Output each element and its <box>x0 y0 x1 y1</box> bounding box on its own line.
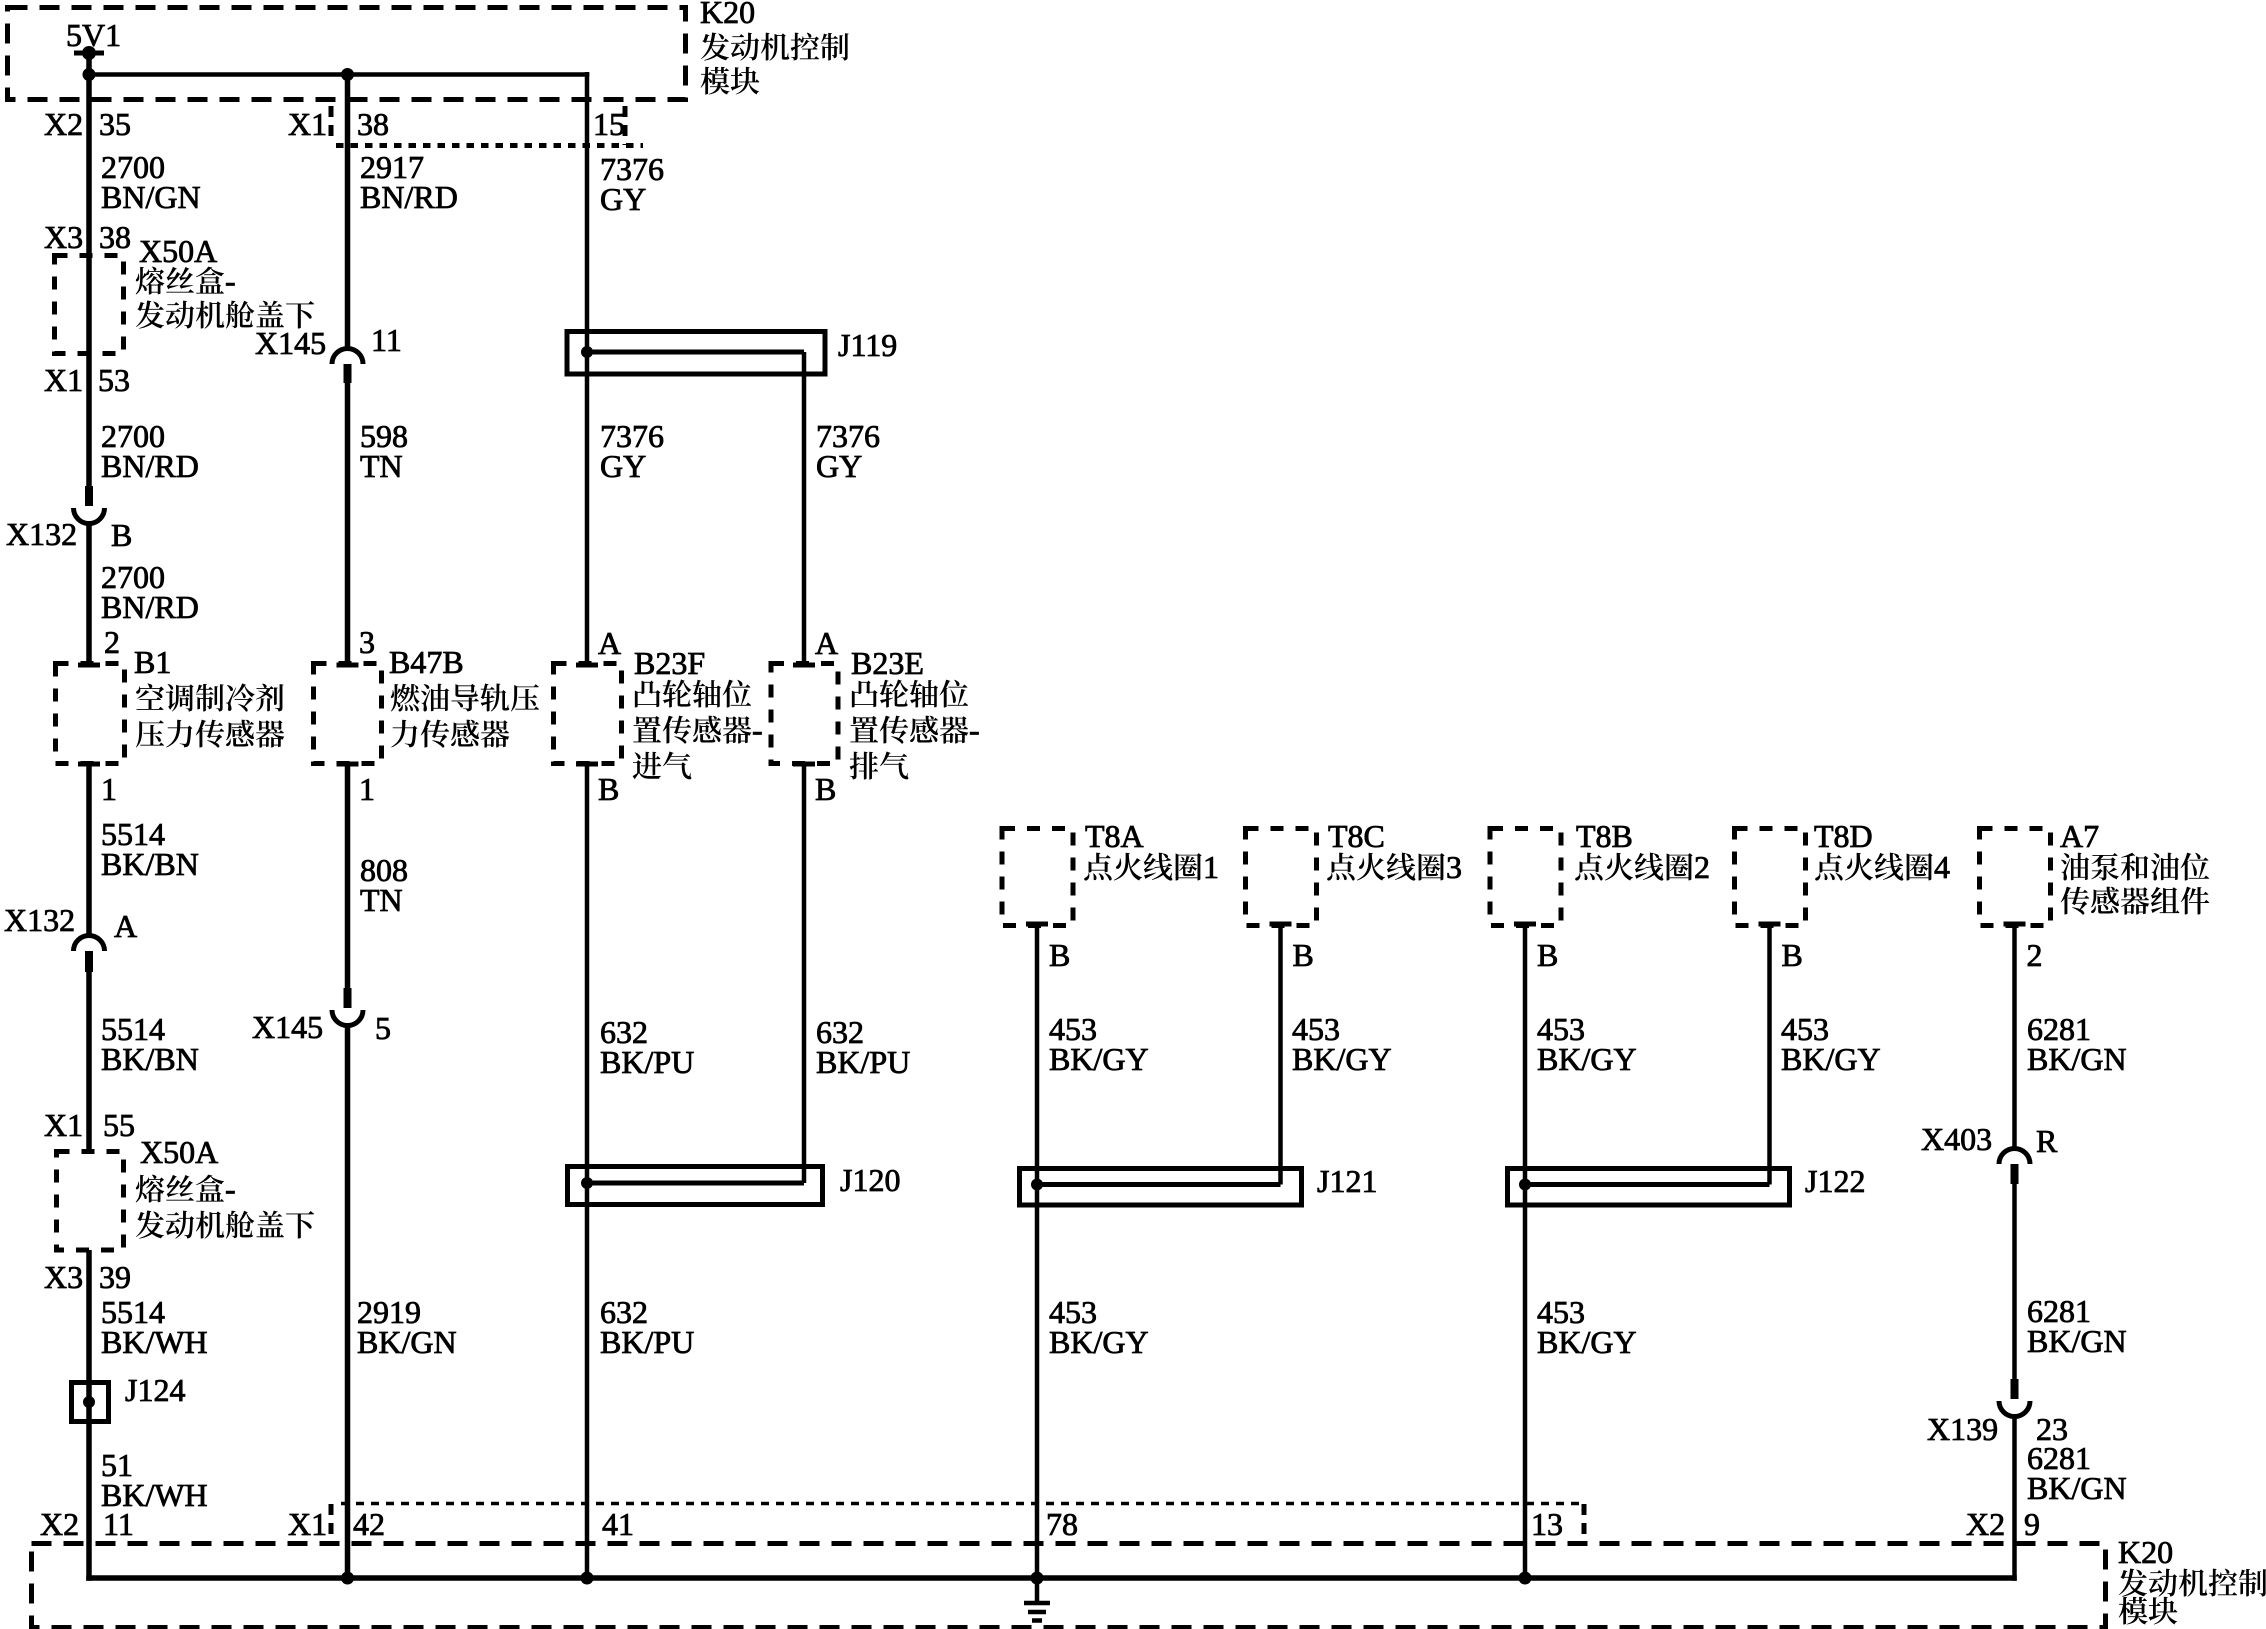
sensor B47B fuel rail pressure sensor dashed box <box>314 664 382 764</box>
junction dot col2 at ground bus <box>341 1572 354 1585</box>
svg-text:39: 39 <box>99 1259 131 1295</box>
label 模块 (top right) <box>701 67 760 95</box>
terminal bar at T8C pin B <box>1270 922 1292 927</box>
svg-text:1: 1 <box>1203 849 1219 885</box>
svg-text:2: 2 <box>2027 937 2043 973</box>
splice J120 box <box>568 1167 823 1205</box>
svg-text:GY: GY <box>600 181 646 217</box>
svg-text:53: 53 <box>98 362 130 398</box>
svg-text:T8C: T8C <box>1328 818 1385 854</box>
wire 5514 BK/BN col1 X132-A to X50A <box>86 972 92 1151</box>
svg-text:BK/GN: BK/GN <box>2027 1470 2127 1506</box>
svg-text:3: 3 <box>359 624 375 660</box>
svg-text:J121: J121 <box>1317 1163 1377 1199</box>
wire 453 BK/GY col7 T8B to J122 <box>1523 924 1528 1185</box>
svg-text:BN/RD: BN/RD <box>101 589 199 625</box>
junction dot in J119 <box>581 346 593 358</box>
svg-text:X1: X1 <box>44 362 83 398</box>
wire 2700 BN/GN col1 from K20 to X132-B <box>86 53 92 488</box>
label 力传感器 <box>391 720 509 748</box>
svg-text:BK/GY: BK/GY <box>1049 1324 1149 1360</box>
wire 5514 BK/WH col1 X50A to J124 <box>86 1250 92 1581</box>
svg-text:BK/GY: BK/GY <box>1537 1041 1637 1077</box>
svg-text:BN/RD: BN/RD <box>360 179 458 215</box>
junction dot col7 at ground bus <box>1519 1572 1532 1585</box>
svg-text:BN/GN: BN/GN <box>101 179 201 215</box>
svg-text:15: 15 <box>593 106 625 142</box>
splice J124 box <box>72 1383 109 1422</box>
svg-text:X132: X132 <box>4 902 75 938</box>
svg-text:9: 9 <box>2024 1506 2040 1542</box>
coil/component T8D dashed box <box>1735 829 1806 926</box>
svg-text:BK/PU: BK/PU <box>600 1044 694 1080</box>
junction dot col5 at ground bus <box>1031 1572 1044 1585</box>
connector X145-11 female cap <box>332 348 363 364</box>
svg-text:T8B: T8B <box>1576 818 1633 854</box>
terminal bar at B23F pinA <box>576 663 598 668</box>
wire 7376 GY col3 from K20 to J119 <box>585 72 590 352</box>
connector X145-11 male pin <box>344 364 352 383</box>
wire 6281 BK/GN col9 X403 to X139 <box>2012 1184 2017 1380</box>
fusebox X50A (top) dashed box <box>55 256 124 354</box>
svg-text:J122: J122 <box>1805 1163 1865 1199</box>
label 发动机舱盖下 <box>136 301 314 329</box>
wire 453 BK/GY col7 J122 to K20 <box>1523 1185 1528 1579</box>
module K20 engine control module (bottom) box <box>32 1544 2106 1628</box>
label 点火线圈2 <box>1575 849 1710 885</box>
coil/component T8A dashed box <box>1002 829 1073 926</box>
splice J119 box <box>567 332 825 375</box>
junction dot col3 at ground bus <box>581 1572 594 1585</box>
svg-text:B23E: B23E <box>851 645 924 681</box>
svg-text:13: 13 <box>1531 1506 1563 1542</box>
label 排气 <box>850 752 909 780</box>
splice J122 box <box>1508 1169 1790 1206</box>
svg-text:X3: X3 <box>44 1259 83 1295</box>
connector X1 dashed tick left (bottom) <box>329 1504 334 1541</box>
wire 7376 GY col3 J119 to B23F <box>585 352 590 663</box>
svg-text:BK/GN: BK/GN <box>2027 1041 2127 1077</box>
module K20 engine control module (top) box <box>8 8 686 100</box>
wire 6281 BK/GN col9 A7 to X403 <box>2012 924 2017 1150</box>
svg-text:B: B <box>815 771 836 807</box>
junction dot in J122 <box>1519 1179 1531 1191</box>
svg-text:BK/BN: BK/BN <box>101 1041 199 1077</box>
node 5V1 junction dot <box>82 46 96 60</box>
label 置传感器- (B23F) <box>633 712 762 748</box>
junction dot at column1 / 5V bus <box>83 68 96 81</box>
svg-text:11: 11 <box>103 1506 134 1542</box>
svg-text:B: B <box>111 517 132 553</box>
svg-text:5V1: 5V1 <box>66 17 121 53</box>
svg-text:B: B <box>1049 937 1070 973</box>
svg-text:X1: X1 <box>288 106 327 142</box>
connector X132-B female cup <box>74 508 105 524</box>
label 发动机控制 (bottom right) <box>2119 1569 2266 1597</box>
svg-text:BK/GY: BK/GY <box>1781 1041 1881 1077</box>
label 凸轮轴位 (B23F) <box>635 680 751 708</box>
svg-text:A: A <box>114 908 137 944</box>
splice J122 bus bar <box>1525 1182 1770 1187</box>
svg-text:-: - <box>225 1171 236 1207</box>
ground bus wire inside K20 <box>86 1575 2017 1581</box>
svg-text:B: B <box>1537 937 1558 973</box>
connector X1 dotted outline (bottom) <box>341 1502 1580 1506</box>
wire 2919 BK/GN col2 X145-5 to K20 <box>345 1023 351 1578</box>
svg-text:BK/PU: BK/PU <box>600 1324 694 1360</box>
svg-text:B: B <box>1293 937 1314 973</box>
svg-text:2: 2 <box>1694 849 1710 885</box>
svg-text:B1: B1 <box>134 644 171 680</box>
terminal bar at B23E pinB <box>793 762 815 767</box>
connector X145-5 male pin <box>344 988 352 1008</box>
label 传感器组件 <box>2061 887 2210 915</box>
svg-text:GY: GY <box>600 448 646 484</box>
connector X403-R male pin <box>2011 1164 2019 1184</box>
svg-text:B47B: B47B <box>389 644 464 680</box>
splice J120 bus bar <box>587 1181 804 1186</box>
svg-text:BK/GY: BK/GY <box>1292 1041 1392 1077</box>
svg-text:55: 55 <box>103 1107 135 1143</box>
wire 598 TN col2 X145 to B47B <box>345 383 351 663</box>
wire 453 BK/GY col6 T8C to J121 <box>1278 924 1283 1185</box>
svg-text:X145: X145 <box>255 325 326 361</box>
svg-text:X3: X3 <box>44 219 83 255</box>
wire 2700 BN/RD col1 X132-B to B1 <box>86 521 92 663</box>
svg-text:GY: GY <box>816 448 862 484</box>
wire 808 TN col2 B47B to X145-5 <box>345 764 351 989</box>
connector X139-23 male pin <box>2011 1379 2019 1399</box>
terminal 5V1 bar <box>74 51 104 56</box>
svg-text:4: 4 <box>1934 849 1950 885</box>
svg-text:J119: J119 <box>838 327 897 363</box>
fusebox X50A (bottom) dashed box <box>57 1152 124 1251</box>
svg-text:X2: X2 <box>1966 1506 2005 1542</box>
junction dot in J121 <box>1031 1179 1043 1191</box>
connector X1 dashed tick right (top) <box>623 106 628 145</box>
svg-text:TN: TN <box>360 882 403 918</box>
terminal bar at A7 pin 2 <box>2004 922 2026 927</box>
svg-text:BK/PU: BK/PU <box>816 1044 910 1080</box>
wire 7376 GY col4 J119 to B23E <box>802 352 807 663</box>
svg-text:78: 78 <box>1046 1506 1078 1542</box>
svg-text:X1: X1 <box>44 1107 83 1143</box>
svg-text:X1: X1 <box>288 1506 327 1542</box>
connector X1 dashed tick right (bottom) <box>1582 1504 1587 1541</box>
label 压力传感器 <box>136 720 284 748</box>
label 燃油导轨压 <box>391 683 539 711</box>
terminal bar at B23F pinB <box>576 762 598 767</box>
svg-text:A: A <box>815 625 838 661</box>
label 熔丝盒- (bottom) <box>136 1171 236 1207</box>
svg-text:X50A: X50A <box>139 233 217 269</box>
label 点火线圈1 <box>1084 849 1219 885</box>
svg-text:TN: TN <box>360 448 403 484</box>
svg-text:BK/WH: BK/WH <box>101 1324 208 1360</box>
svg-text:B: B <box>1782 937 1803 973</box>
svg-text:B23F: B23F <box>634 645 705 681</box>
label 凸轮轴位 (B23E) <box>852 680 968 708</box>
label 点火线圈4 <box>1815 849 1950 885</box>
terminal bar at T8A pin B <box>1026 922 1048 927</box>
terminal bar at B1 pin2 <box>78 663 100 668</box>
svg-text:2: 2 <box>104 624 120 660</box>
label 进气 <box>633 752 692 780</box>
svg-text:42: 42 <box>353 1506 385 1542</box>
label 油泵和油位 <box>2061 853 2209 881</box>
svg-text:35: 35 <box>99 106 131 142</box>
svg-text:R: R <box>2036 1123 2058 1159</box>
coil/component A7 dashed box <box>1980 829 2051 926</box>
splice J121 box <box>1020 1169 1302 1206</box>
connector X139-23 female cup <box>1999 1401 2030 1416</box>
svg-text:J124: J124 <box>125 1372 185 1408</box>
connector X145-5 female cup <box>332 1010 363 1025</box>
svg-text:X403: X403 <box>1921 1121 1992 1157</box>
svg-text:X2: X2 <box>40 1506 79 1542</box>
svg-text:11: 11 <box>371 322 402 358</box>
svg-text:BK/GY: BK/GY <box>1537 1324 1637 1360</box>
coil/component T8B dashed box <box>1490 829 1561 926</box>
svg-text:41: 41 <box>602 1506 634 1542</box>
svg-text:B: B <box>598 771 619 807</box>
svg-text:38: 38 <box>99 219 131 255</box>
connector X132-A female cap <box>74 935 105 951</box>
terminal bar at B23E pinA <box>793 663 815 668</box>
wire 453 BK/GY col8 T8D to J122 <box>1767 924 1772 1185</box>
svg-text:-: - <box>225 263 236 299</box>
label 模块 (bottom right) <box>2119 1597 2178 1625</box>
splice J119 bus bar <box>587 350 804 355</box>
junction dot at column2 / 5V bus <box>341 68 354 81</box>
svg-text:BK/GY: BK/GY <box>1049 1041 1149 1077</box>
label 发动机控制 (top right) <box>701 33 849 61</box>
svg-text:BK/GN: BK/GN <box>357 1324 457 1360</box>
sensor B23E camshaft position exhaust dashed box <box>771 664 838 764</box>
sensor B1 A/C refrigerant pressure sensor dashed box <box>56 664 125 764</box>
svg-text:A7: A7 <box>2060 818 2099 854</box>
coil/component T8C dashed box <box>1246 829 1317 926</box>
svg-text:38: 38 <box>357 106 389 142</box>
wire 453 BK/GY col5 T8A to J121 <box>1035 924 1040 1185</box>
terminal bar at B1 pin1 <box>78 762 100 767</box>
svg-text:X145: X145 <box>252 1009 323 1045</box>
connector X403-R female cap <box>1999 1149 2030 1165</box>
wire 5514 BK/BN col1 B1 to X132-A <box>86 764 92 936</box>
connector X132-B male pin <box>85 486 93 506</box>
svg-text:5: 5 <box>375 1010 391 1046</box>
wire 2917 BN/RD col2 from 5V bus to X145-11 <box>345 75 351 350</box>
ground symbol below bus <box>1024 1601 1050 1606</box>
label 熔丝盒- <box>136 263 236 299</box>
label 空调制冷剂 <box>136 683 283 711</box>
label 点火线圈3 <box>1327 849 1462 885</box>
svg-text:T8A: T8A <box>1085 818 1144 854</box>
connector X132-A male pin <box>85 951 93 972</box>
svg-text:X139: X139 <box>1927 1411 1998 1447</box>
wire 632 BK/PU col4 B23E to J120 <box>802 764 807 1183</box>
svg-text:BN/RD: BN/RD <box>101 448 199 484</box>
terminal bar at B47B pin3 <box>337 663 359 668</box>
terminal bar at T8B pin B <box>1514 922 1536 927</box>
svg-text:-: - <box>752 712 763 748</box>
connector X1 dashed tick left (top) <box>329 106 334 141</box>
label 发动机舱盖下 (bottom) <box>136 1211 314 1239</box>
terminal bar at B47B pin1 <box>337 762 359 767</box>
svg-text:1: 1 <box>359 771 375 807</box>
svg-text:-: - <box>969 712 980 748</box>
svg-text:BK/BN: BK/BN <box>101 846 199 882</box>
junction dot in J120 <box>581 1177 593 1189</box>
svg-text:K20: K20 <box>700 0 755 30</box>
wire 632 BK/PU col3 B23F to J120 <box>585 764 590 1183</box>
svg-text:K20: K20 <box>2118 1534 2173 1570</box>
svg-text:X132: X132 <box>6 516 77 552</box>
svg-text:1: 1 <box>101 771 117 807</box>
svg-text:J120: J120 <box>840 1162 900 1198</box>
svg-text:BK/GN: BK/GN <box>2027 1323 2127 1359</box>
terminal bar at T8D pin B <box>1759 922 1781 927</box>
wire 632 BK/PU col3 J120 to K20 <box>585 1183 590 1578</box>
sensor B23F camshaft position intake dashed box <box>554 664 622 764</box>
connector X1 dotted outline (top) <box>336 143 643 148</box>
svg-text:3: 3 <box>1446 849 1462 885</box>
svg-text:T8D: T8D <box>1814 818 1873 854</box>
svg-text:X2: X2 <box>44 106 83 142</box>
svg-text:X50A: X50A <box>140 1134 218 1170</box>
svg-text:A: A <box>598 625 621 661</box>
wire 5V bus inside K20 <box>89 72 589 77</box>
label 置传感器- (B23E) <box>850 712 979 748</box>
wire 6281 BK/GN col9 X139 to K20 <box>2012 1414 2017 1581</box>
junction dot in J124 <box>83 1396 95 1408</box>
wire 453 BK/GY col5 J121 to K20 <box>1035 1185 1040 1606</box>
splice J121 bus bar <box>1037 1182 1281 1187</box>
